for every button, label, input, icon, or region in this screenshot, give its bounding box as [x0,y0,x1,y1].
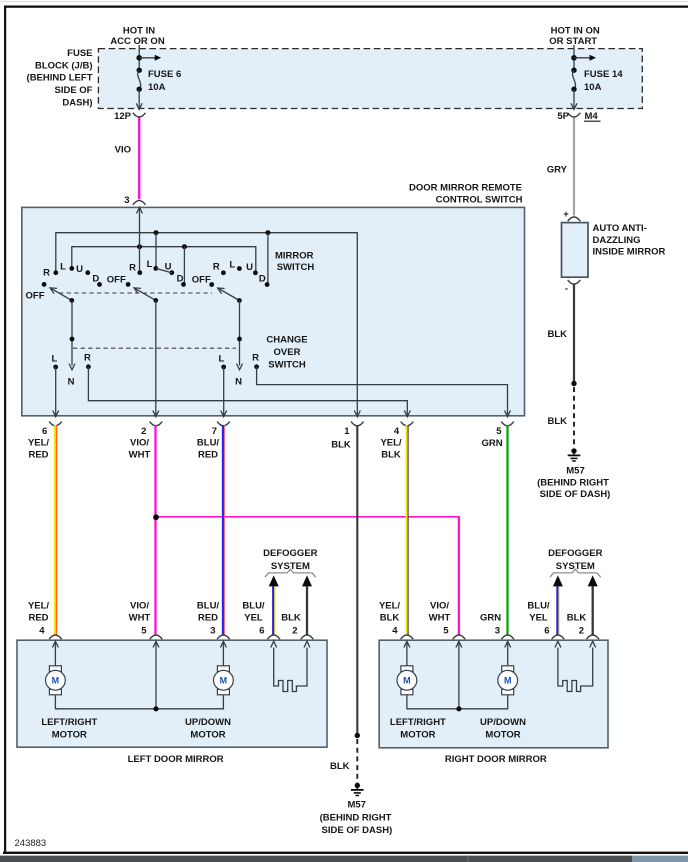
svg-text:M57: M57 [566,465,584,476]
svg-text:VIO: VIO [115,144,131,155]
svg-text:MOTOR: MOTOR [190,730,225,741]
svg-text:1: 1 [344,426,350,437]
svg-text:2: 2 [292,625,297,636]
svg-text:DASH): DASH) [62,98,92,109]
svg-text:6: 6 [259,625,264,636]
svg-text:N: N [68,376,75,387]
svg-text:4: 4 [392,625,398,636]
svg-text:YEL: YEL [529,612,548,623]
svg-text:L: L [147,259,153,270]
svg-text:2: 2 [141,426,146,437]
svg-text:-: - [565,284,568,295]
svg-text:RED: RED [28,449,48,460]
svg-text:WHT: WHT [429,612,451,623]
svg-text:SWITCH: SWITCH [277,262,315,273]
svg-text:6: 6 [544,625,549,636]
svg-text:OFF: OFF [26,290,45,301]
svg-text:SIDE OF: SIDE OF [54,85,92,96]
svg-text:ACC OR ON: ACC OR ON [110,36,165,47]
svg-text:MIRROR: MIRROR [275,250,314,261]
svg-text:R: R [129,262,136,273]
svg-text:YEL/: YEL/ [380,438,401,449]
svg-text:3: 3 [124,195,129,206]
svg-text:BLK: BLK [331,440,351,451]
svg-text:AUTO ANTI-: AUTO ANTI- [593,223,647,234]
svg-text:5: 5 [496,426,502,437]
svg-text:GRN: GRN [481,438,502,449]
svg-text:R: R [252,352,259,363]
svg-text:VIO/: VIO/ [430,601,449,612]
svg-text:FUSE 6: FUSE 6 [148,69,181,80]
svg-text:M4: M4 [585,111,599,122]
svg-text:UP/DOWN: UP/DOWN [185,717,231,728]
svg-text:YEL/: YEL/ [28,601,49,612]
svg-text:12P: 12P [114,111,132,122]
svg-text:N: N [235,376,242,387]
svg-text:7: 7 [212,426,217,437]
svg-text:SYSTEM: SYSTEM [271,561,310,572]
svg-text:LEFT DOOR MIRROR: LEFT DOOR MIRROR [128,754,224,765]
svg-text:M: M [403,676,411,686]
svg-text:BLU/: BLU/ [242,601,265,612]
svg-text:FUSE: FUSE [67,48,92,59]
svg-text:GRN: GRN [480,612,501,623]
svg-text:WHT: WHT [129,612,151,623]
svg-text:L: L [60,261,66,272]
svg-text:10A: 10A [584,82,602,93]
svg-text:BLOCK (J/B): BLOCK (J/B) [35,60,93,71]
svg-text:OFF: OFF [192,275,211,286]
svg-text:DEFOGGER: DEFOGGER [548,548,603,559]
svg-text:M: M [504,676,512,686]
svg-text:YEL/: YEL/ [379,601,400,612]
svg-text:OR START: OR START [549,36,597,47]
svg-text:OVER: OVER [274,347,301,358]
svg-text:2: 2 [579,625,584,636]
svg-text:D: D [259,274,266,285]
svg-text:BLU/: BLU/ [197,601,220,612]
svg-text:BLK: BLK [547,329,567,340]
svg-text:D: D [92,274,99,285]
svg-text:L: L [218,353,224,364]
svg-text:SIDE OF DASH): SIDE OF DASH) [540,489,611,500]
svg-text:R: R [84,352,91,363]
svg-text:INSIDE MIRROR: INSIDE MIRROR [593,246,666,257]
svg-text:RED: RED [198,612,218,623]
svg-text:243883: 243883 [15,838,47,849]
svg-text:4: 4 [39,625,45,636]
svg-text:3: 3 [495,625,500,636]
svg-text:VIO/: VIO/ [130,438,149,449]
svg-text:DOOR MIRROR REMOTE: DOOR MIRROR REMOTE [409,182,522,193]
svg-text:U: U [76,264,83,275]
svg-text:M57: M57 [347,799,365,810]
svg-text:SIDE OF DASH): SIDE OF DASH) [322,825,393,836]
svg-text:BLK: BLK [567,612,587,623]
svg-text:CONTROL SWITCH: CONTROL SWITCH [436,195,523,206]
svg-text:4: 4 [394,426,400,437]
svg-text:(BEHIND RIGHT: (BEHIND RIGHT [537,478,609,489]
svg-text:L: L [51,353,57,364]
svg-text:LEFT/RIGHT: LEFT/RIGHT [390,717,446,728]
svg-text:YEL/: YEL/ [28,438,49,449]
svg-text:LEFT/RIGHT: LEFT/RIGHT [41,717,97,728]
svg-text:WHT: WHT [129,449,151,460]
svg-text:6: 6 [42,426,47,437]
svg-text:SWITCH: SWITCH [268,360,306,371]
svg-text:M: M [220,676,228,686]
svg-text:BLK: BLK [381,449,401,460]
svg-text:MOTOR: MOTOR [400,730,435,741]
svg-text:UP/DOWN: UP/DOWN [480,717,526,728]
svg-text:5: 5 [443,625,449,636]
svg-text:BLK: BLK [330,761,350,772]
svg-text:R: R [43,267,50,278]
svg-text:+: + [563,209,569,220]
svg-text:VIO/: VIO/ [130,601,149,612]
svg-text:BLU/: BLU/ [197,438,220,449]
svg-text:RIGHT DOOR MIRROR: RIGHT DOOR MIRROR [445,754,547,765]
svg-text:BLK: BLK [281,612,301,623]
svg-text:GRY: GRY [547,165,568,176]
svg-text:U: U [246,262,253,273]
svg-text:HOT IN ON: HOT IN ON [551,25,600,36]
svg-text:OFF: OFF [107,275,126,286]
svg-text:10A: 10A [148,82,166,93]
svg-text:BLU/: BLU/ [527,601,550,612]
svg-text:FUSE 14: FUSE 14 [584,69,623,80]
svg-text:L: L [229,259,235,270]
svg-text:DEFOGGER: DEFOGGER [263,548,318,559]
svg-text:DAZZLING: DAZZLING [593,235,641,246]
svg-text:MOTOR: MOTOR [485,730,520,741]
svg-text:D: D [177,274,184,285]
svg-text:YEL: YEL [244,612,263,623]
svg-text:BLK: BLK [380,612,400,623]
svg-text:RED: RED [28,612,48,623]
svg-text:CHANGE: CHANGE [266,335,307,346]
svg-text:(BEHIND RIGHT: (BEHIND RIGHT [320,813,392,824]
svg-text:3: 3 [210,625,215,636]
svg-text:HOT IN: HOT IN [123,25,155,36]
svg-text:BLK: BLK [547,416,567,427]
svg-text:RED: RED [198,449,218,460]
svg-text:U: U [165,262,172,273]
svg-text:SYSTEM: SYSTEM [556,561,595,572]
svg-text:MOTOR: MOTOR [52,730,87,741]
svg-text:R: R [213,261,220,272]
svg-text:5: 5 [141,625,147,636]
svg-text:(BEHIND LEFT: (BEHIND LEFT [27,73,93,84]
svg-text:M: M [52,676,60,686]
